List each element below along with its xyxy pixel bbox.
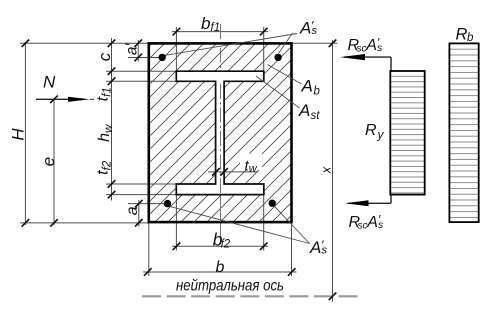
svg-text:b: b: [314, 86, 321, 98]
svg-text:s: s: [322, 245, 328, 257]
svg-text:s: s: [312, 25, 318, 37]
svg-text:A: A: [298, 101, 310, 120]
svg-text:x: x: [319, 166, 334, 174]
svg-text:A: A: [309, 238, 321, 257]
svg-text:f1: f1: [211, 22, 221, 34]
svg-text:A: A: [299, 19, 311, 38]
svg-text:a′: a′: [123, 42, 140, 55]
svg-text:A: A: [366, 214, 378, 231]
svg-text:нейтральная ось: нейтральная ось: [176, 278, 284, 295]
svg-text:b: b: [201, 14, 210, 33]
svg-text:st: st: [311, 110, 321, 122]
svg-text:e: e: [39, 157, 58, 166]
svg-text:w: w: [249, 163, 258, 175]
svg-text:s: s: [377, 42, 383, 54]
svg-text:R: R: [456, 26, 468, 44]
svg-text:A: A: [365, 37, 377, 54]
svg-text:A: A: [301, 77, 313, 96]
svg-text:s: s: [378, 219, 384, 231]
svg-text:sc: sc: [357, 43, 367, 54]
svg-text:y: y: [377, 128, 385, 142]
svg-text:sc: sc: [358, 220, 368, 231]
svg-text:H: H: [9, 128, 28, 141]
svg-text:b: b: [216, 259, 225, 276]
svg-text:N: N: [43, 73, 56, 92]
svg-text:f2: f2: [221, 238, 231, 250]
svg-text:c: c: [95, 52, 114, 61]
svg-text:R: R: [365, 122, 377, 139]
svg-text:b: b: [467, 32, 474, 44]
svg-text:a: a: [124, 206, 141, 215]
